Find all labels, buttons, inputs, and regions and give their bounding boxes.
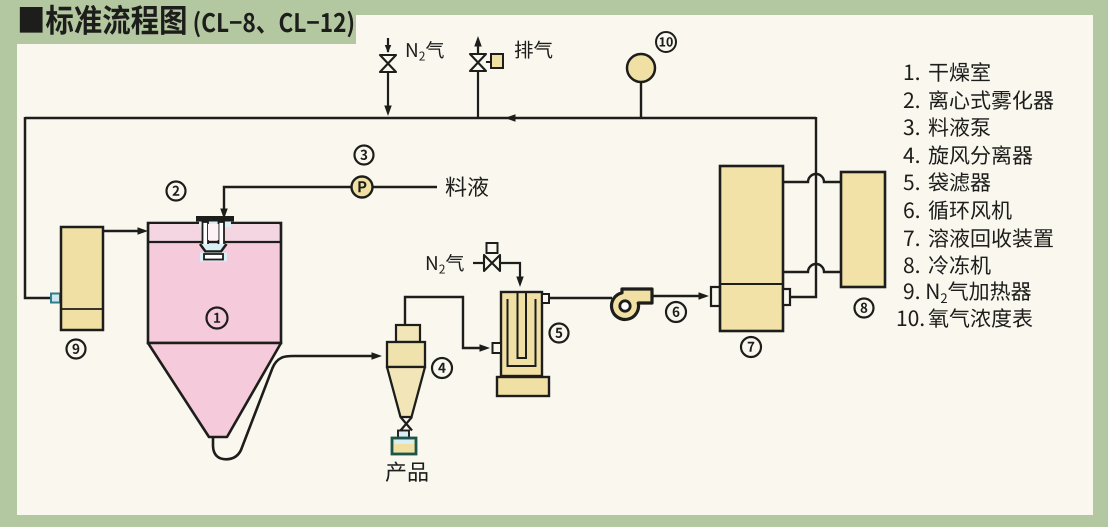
label N2气 (filter): [427, 254, 464, 274]
node 5 label: [550, 324, 569, 343]
port: unit7 outlet: [783, 289, 790, 305]
component U1: drying chamber body: [148, 223, 281, 343]
node 9 label: [67, 340, 86, 359]
wire: feed liquid line to atomizer: [224, 187, 437, 212]
wire: fan to recovery unit: [652, 295, 702, 297]
wire: filter to fan: [549, 297, 612, 299]
wire: main top return pipe: [25, 117, 816, 120]
component U5: bag filter: [501, 292, 542, 376]
label 产品: [386, 462, 428, 482]
valve: cyclone discharge: [401, 417, 413, 431]
component U8: refrigerator: [841, 172, 885, 287]
node 8 label: [855, 299, 874, 318]
node 4 label: [432, 358, 452, 378]
component U2: centrifugal atomizer: [199, 221, 231, 227]
node 3 label: [355, 146, 374, 165]
instrument U10: oxygen concentration meter: [640, 82, 642, 118]
node 6 label: [666, 302, 686, 322]
component U1: chamber cone: [148, 343, 281, 437]
component U7: solution recovery unit: [720, 166, 783, 331]
wire: left downcomer to N2 heater: [25, 117, 51, 298]
valve V2 exhaust: [474, 36, 482, 47]
wire: cyclone outlet to bag filter: [405, 297, 484, 348]
component U6: circulation fan: [612, 289, 652, 319]
label 排气: [515, 41, 553, 59]
node 2 label: [167, 182, 186, 201]
component U4: cyclone separator: [396, 325, 420, 342]
title text 标准流程图 (CL-8、CL-12): [20, 5, 353, 37]
label N2气: [407, 41, 444, 61]
node 1 label: [207, 308, 228, 329]
component U9: N2 gas heater: [61, 227, 103, 330]
title band: [0, 0, 356, 44]
pump U3: feed pump P: [352, 177, 373, 198]
label 料液: [446, 177, 489, 197]
port: unit7 inlet: [711, 287, 720, 306]
valve V3: N2 purge for bag filter: [473, 262, 484, 264]
wire: return riser from unit7: [790, 117, 816, 297]
node 7 label: [741, 337, 761, 357]
wire: lower link U7-U8 with hop: [783, 264, 841, 272]
legend list: [905, 65, 919, 81]
wire: heater to drying chamber: [103, 230, 141, 232]
valve V1 N2 gas inlet: [387, 38, 389, 52]
port: heater inlet square: [51, 294, 60, 303]
container: product receiver: [392, 438, 416, 454]
wire: product duct chamber to cyclone: [213, 356, 374, 459]
node 10 label: [656, 32, 676, 52]
wire: upper link U7-U8 with hop: [783, 174, 841, 182]
